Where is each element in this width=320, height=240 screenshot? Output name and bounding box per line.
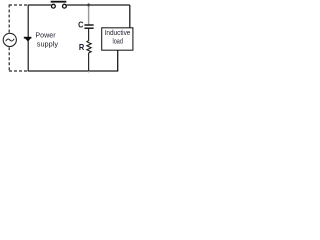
- svg-text:Inductive: Inductive: [105, 30, 131, 37]
- svg-text:load: load: [113, 39, 123, 46]
- svg-text:C: C: [78, 20, 83, 30]
- svg-text:R: R: [79, 42, 84, 52]
- svg-text:supply: supply: [37, 39, 59, 48]
- svg-text:Power: Power: [35, 31, 56, 40]
